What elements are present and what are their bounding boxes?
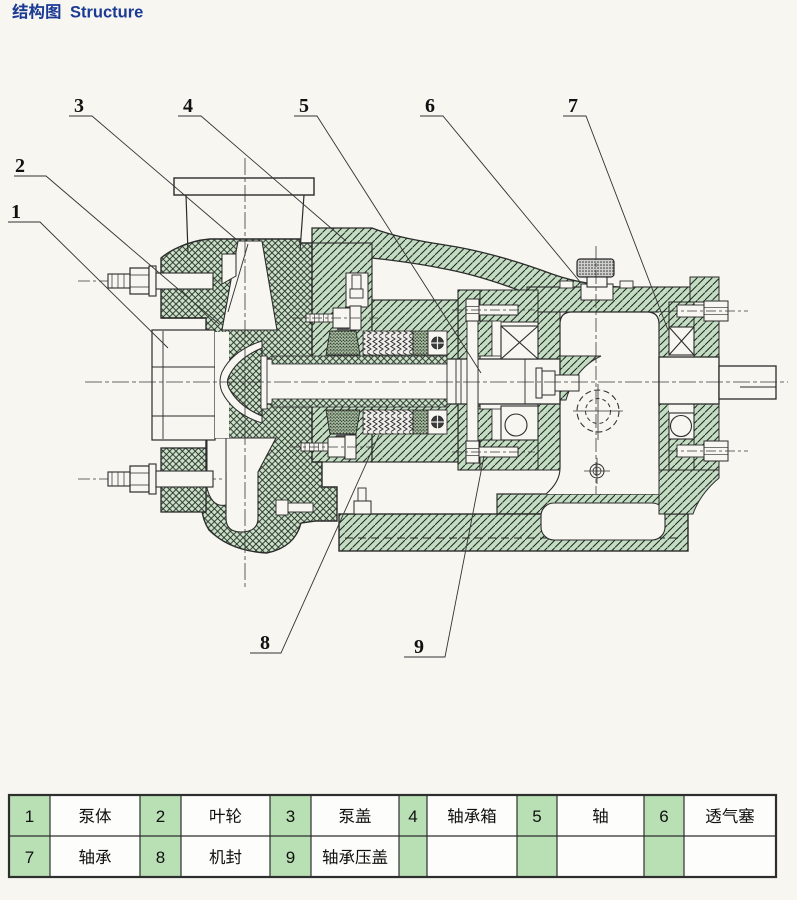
svg-text:2: 2 bbox=[156, 807, 165, 826]
svg-text:1: 1 bbox=[25, 807, 34, 826]
svg-text:7: 7 bbox=[25, 848, 34, 867]
svg-text:4: 4 bbox=[183, 95, 193, 117]
svg-text:1: 1 bbox=[11, 201, 21, 223]
svg-text:2: 2 bbox=[15, 155, 25, 177]
svg-text:8: 8 bbox=[156, 848, 165, 867]
svg-text:6: 6 bbox=[659, 807, 668, 826]
svg-text:9: 9 bbox=[414, 636, 424, 658]
svg-text:6: 6 bbox=[425, 95, 435, 117]
svg-text:3: 3 bbox=[74, 95, 84, 117]
svg-text:5: 5 bbox=[532, 807, 541, 826]
svg-text:9: 9 bbox=[286, 848, 295, 867]
svg-text:5: 5 bbox=[299, 95, 309, 117]
svg-text:8: 8 bbox=[260, 632, 270, 654]
svg-text:4: 4 bbox=[408, 807, 417, 826]
svg-text:Structure: Structure bbox=[70, 4, 143, 22]
svg-text:3: 3 bbox=[286, 807, 295, 826]
svg-text:7: 7 bbox=[568, 95, 578, 117]
